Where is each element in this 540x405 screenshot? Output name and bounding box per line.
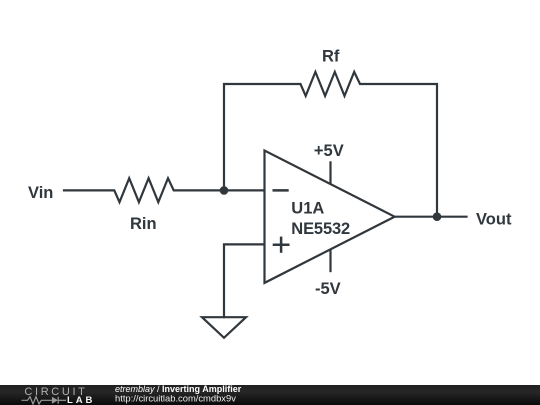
svg-text:Rin: Rin	[130, 215, 157, 233]
svg-text:Vout: Vout	[476, 211, 512, 229]
svg-text:Rf: Rf	[322, 47, 340, 65]
svg-text:LAB: LAB	[67, 395, 95, 405]
svg-text:U1A: U1A	[291, 199, 324, 217]
svg-text:-5V: -5V	[315, 280, 341, 298]
svg-text:+5V: +5V	[314, 142, 344, 160]
svg-text:NE5532: NE5532	[291, 220, 350, 238]
svg-text:Vin: Vin	[28, 184, 53, 202]
svg-text:http://circuitlab.com/cmdbx9v: http://circuitlab.com/cmdbx9v	[115, 393, 236, 404]
